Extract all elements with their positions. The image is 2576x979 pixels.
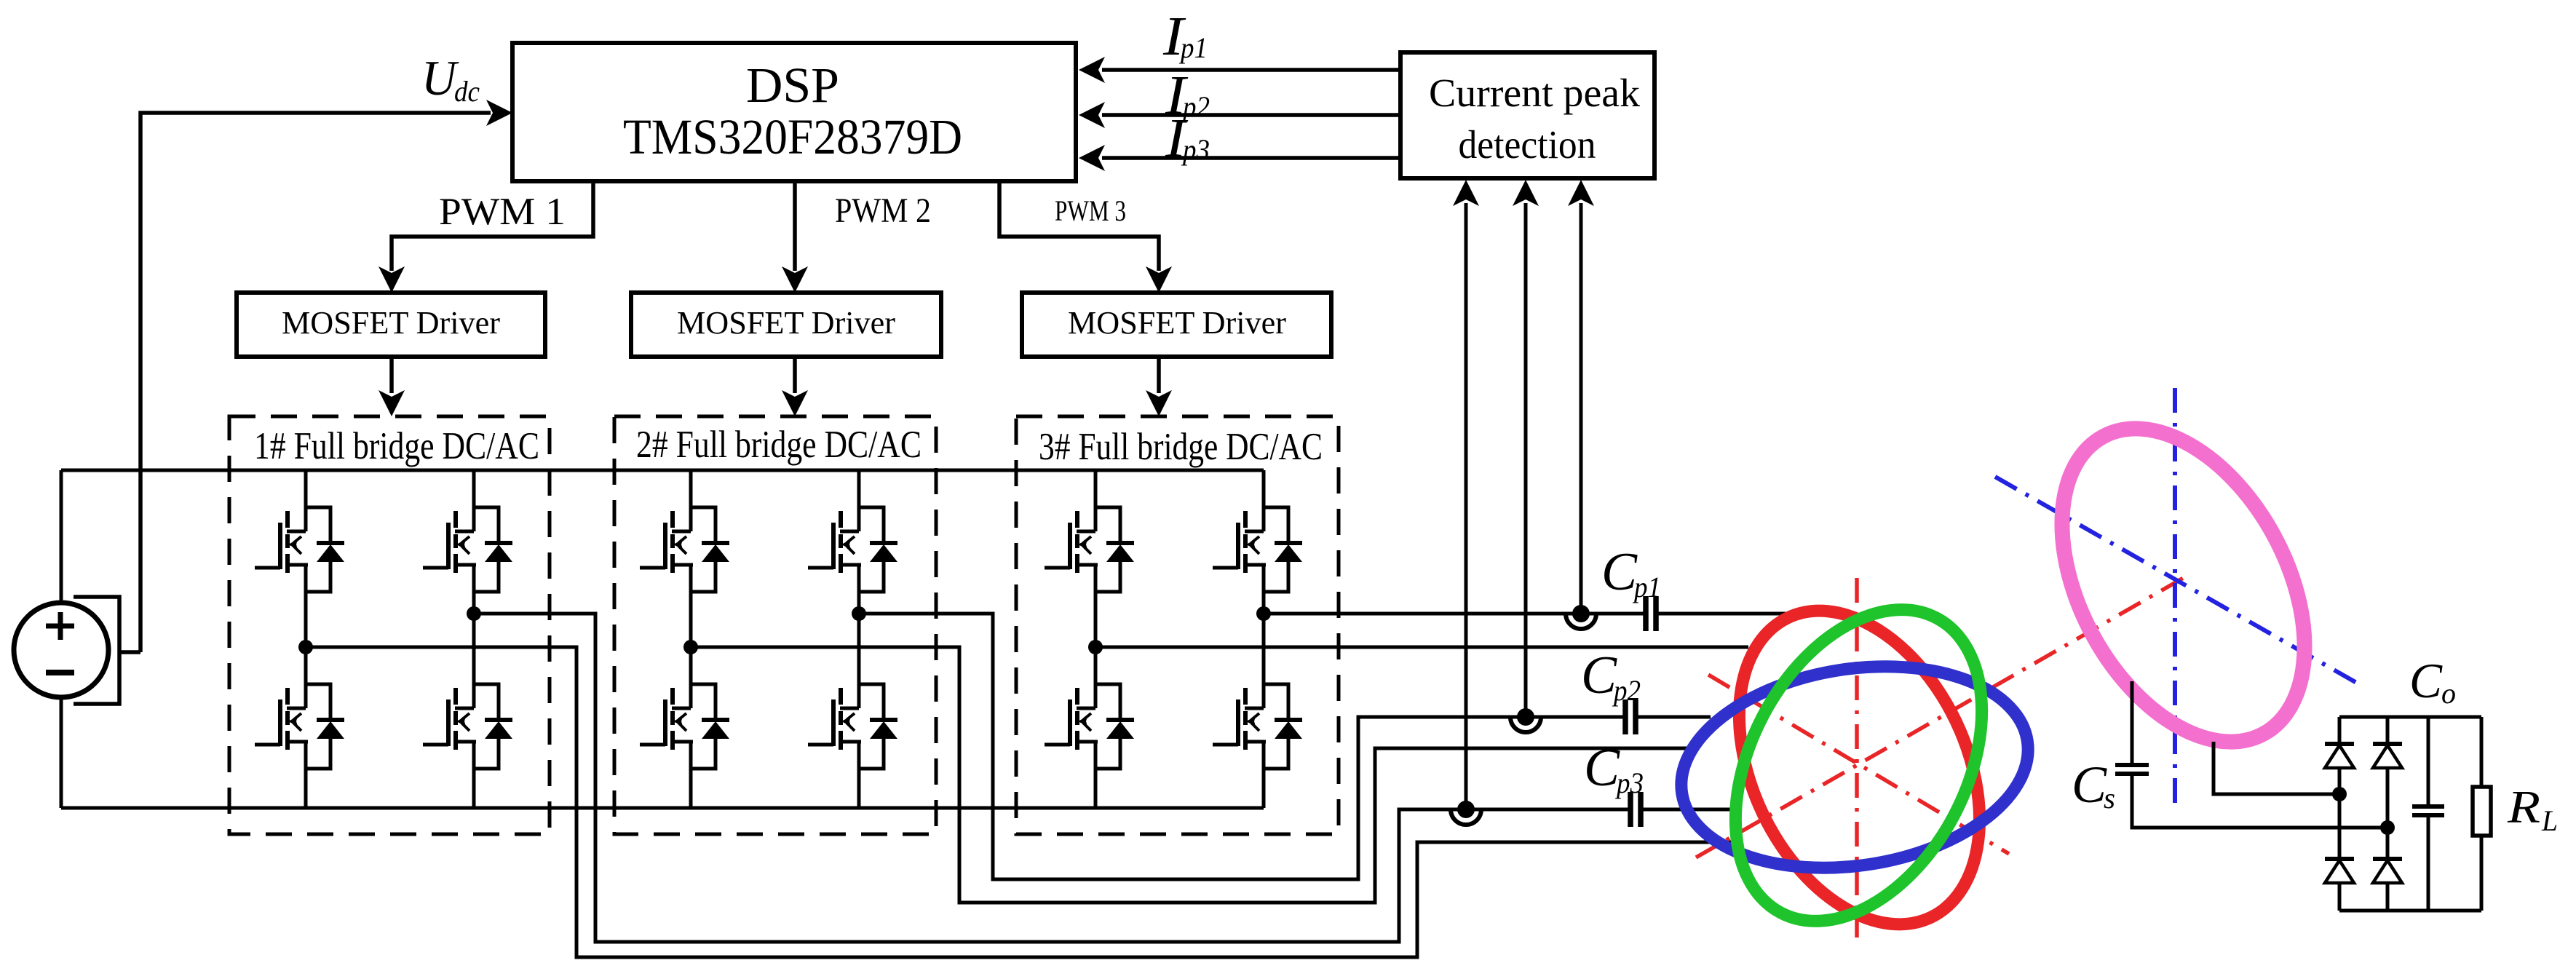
- wire sensor2 to detection box: [1513, 180, 1539, 717]
- receiver coil Ls (pink): [2012, 387, 2354, 782]
- svg-text:C: C: [2072, 756, 2107, 814]
- node bridge1 left midpoint: [298, 640, 313, 654]
- capacitor Cp1: [1646, 596, 1656, 631]
- capacitor Cp3: [1630, 792, 1641, 827]
- bridge1 right leg: [472, 470, 476, 808]
- current sensor on Ip2 line: [1510, 708, 1541, 732]
- label RL: [2507, 781, 2558, 837]
- transistor Q3 with body diode (bridge1 bottom-left): [255, 684, 344, 769]
- svg-text:1# Full bridge DC/AC: 1# Full bridge DC/AC: [254, 425, 539, 467]
- wire Udc sense from source bracket to DSP input: [119, 113, 491, 652]
- node bridge1 right midpoint: [467, 606, 481, 621]
- current sensor on Ip3 line: [1451, 801, 1481, 825]
- label Co: [2409, 653, 2456, 710]
- capacitor Co: [2412, 717, 2444, 911]
- Current peak detection box U2: [1400, 52, 1654, 178]
- svg-text:C: C: [1601, 542, 1638, 602]
- svg-text:3# Full bridge DC/AC: 3# Full bridge DC/AC: [1039, 426, 1323, 468]
- wire DC bus top rail: [61, 469, 1264, 472]
- svg-text:p1: p1: [1632, 571, 1661, 603]
- bridge3 left leg: [1094, 470, 1098, 808]
- label Ip3: [1165, 108, 1210, 169]
- bridge2 right leg: [857, 470, 861, 808]
- label Ip2: [1165, 65, 1210, 126]
- transistor Q6 with body diode (bridge2 top-right): [808, 507, 897, 592]
- svg-text:MOSFET Driver: MOSFET Driver: [677, 305, 895, 341]
- diode D2: [2373, 744, 2402, 768]
- dashed box 2# full bridge DC/AC: [614, 416, 936, 834]
- wire left rail to source: [60, 470, 63, 808]
- label Cp3: [1584, 738, 1644, 799]
- transistor Q12 with body diode (bridge3 bottom-right): [1213, 684, 1302, 769]
- label Cp1: [1601, 542, 1661, 603]
- rectifier top bus: [2339, 716, 2481, 719]
- DSP controller box U1: [512, 43, 1076, 181]
- transistor Q5 with body diode (bridge2 top-left): [640, 507, 729, 592]
- svg-text:dc: dc: [454, 75, 480, 108]
- wire bridge2 right node to Cp2 and coil L3: [859, 614, 1711, 879]
- DC voltage source V1: [14, 603, 108, 697]
- node bridge3 right midpoint: [1256, 606, 1271, 621]
- wire driver3 to bridge3: [1146, 357, 1172, 416]
- node bridge3 left midpoint: [1088, 640, 1103, 654]
- MOSFET Driver box 2: [631, 293, 941, 357]
- svg-text:Current peak: Current peak: [1429, 71, 1640, 115]
- svg-text:DSP: DSP: [746, 58, 839, 113]
- rectifier bottom bus: [2339, 909, 2481, 913]
- wire PWM 1 from DSP to MOSFET driver 1: [379, 181, 593, 293]
- svg-text:detection: detection: [1459, 122, 1596, 167]
- node rectifier upper input: [2332, 787, 2347, 801]
- rectifier left rail: [2338, 717, 2342, 911]
- wire DC bus bottom rail: [61, 806, 1264, 810]
- wire driver1 to bridge1: [379, 357, 405, 416]
- node bridge2 left midpoint: [683, 640, 698, 654]
- transmitter coil L2 (green): [1686, 568, 2032, 963]
- svg-text:2# Full bridge DC/AC: 2# Full bridge DC/AC: [636, 424, 922, 466]
- transistor Q9 with body diode (bridge3 top-left): [1045, 507, 1134, 592]
- axis dash-dot diagonal back-slash of transmitter coil set: [1708, 675, 2009, 854]
- label Ip1: [1162, 6, 1208, 67]
- wire bridge3 left node return to coil L1: [1095, 646, 1748, 649]
- wire bridge3 right node to Cp1 and coil L1: [1264, 612, 1788, 616]
- label Cs: [2072, 756, 2115, 814]
- svg-text:C: C: [1581, 646, 1618, 705]
- label Cp2: [1581, 646, 1641, 707]
- transistor Q2 with body diode (bridge1 top-right): [423, 507, 512, 592]
- svg-text:R: R: [2507, 781, 2540, 833]
- transistor Q4 with body diode (bridge1 bottom-right): [423, 684, 512, 769]
- svg-text:p3: p3: [1614, 766, 1644, 799]
- transistor Q8 with body diode (bridge2 bottom-right): [808, 684, 897, 769]
- MOSFET Driver box 1: [237, 293, 545, 357]
- wire Ip2 from detection box to DSP: [1079, 102, 1400, 128]
- wire PWM 3 from DSP to MOSFET driver 3: [999, 181, 1172, 293]
- svg-text:s: s: [2104, 782, 2115, 814]
- svg-text:p3: p3: [1181, 133, 1210, 166]
- wire Ip3 from detection box to DSP: [1079, 145, 1400, 171]
- transistor Q7 with body diode (bridge2 bottom-left): [640, 684, 729, 769]
- transmitter coil L1 (red): [1692, 571, 2028, 963]
- svg-text:L: L: [2541, 804, 2558, 837]
- svg-text:p1: p1: [1178, 31, 1208, 64]
- svg-text:MOSFET Driver: MOSFET Driver: [1068, 305, 1286, 341]
- svg-text:TMS320F28379D: TMS320F28379D: [623, 109, 962, 165]
- wire PWM 2 from DSP to MOSFET driver 2: [782, 181, 808, 293]
- node bridge2 right midpoint: [852, 606, 866, 621]
- resistor RL: [2473, 717, 2491, 911]
- diode D4: [2373, 859, 2402, 883]
- svg-text:o: o: [2441, 677, 2456, 710]
- wire sensor3 to detection box: [1453, 180, 1479, 809]
- bridge1 left leg: [304, 470, 308, 808]
- bridge3 right leg: [1262, 470, 1266, 808]
- axis dash-dot vertical of transmitter coil set: [1855, 578, 1859, 938]
- wire bridge2 left node return to coil L3: [691, 647, 1692, 903]
- wire receiver coil to Cs: [2131, 681, 2134, 763]
- axis dash-dot diagonal to receiver coil: [1696, 574, 2191, 857]
- diode D1: [2325, 744, 2354, 768]
- transmitter coil L3 (blue): [1668, 644, 2042, 891]
- wire bridge1 right node to Cp3 and coil L2: [474, 614, 1736, 942]
- svg-text:MOSFET Driver: MOSFET Driver: [282, 305, 500, 341]
- capacitor Cs: [2115, 765, 2149, 774]
- transistor Q11 with body diode (bridge3 bottom-left): [1045, 684, 1134, 769]
- transistor Q1 with body diode (bridge1 top-left): [255, 507, 344, 592]
- label Udc: [421, 50, 480, 108]
- current sensor on Ip1 line: [1566, 605, 1596, 629]
- dashed box 3# full bridge DC/AC: [1016, 416, 1339, 834]
- wire bridge1 left node return to coil L2: [306, 647, 1737, 957]
- svg-text:PWM 1: PWM 1: [439, 191, 566, 233]
- MOSFET Driver box 3: [1022, 293, 1331, 357]
- node rectifier lower input: [2380, 820, 2395, 835]
- transistor Q10 with body diode (bridge3 top-right): [1213, 507, 1302, 592]
- svg-text:PWM 2: PWM 2: [835, 191, 931, 230]
- diode D3: [2325, 859, 2354, 883]
- dashed box 1# full bridge DC/AC: [229, 416, 550, 834]
- svg-text:C: C: [1584, 738, 1621, 798]
- rectifier right rail: [2386, 717, 2390, 911]
- bridge2 left leg: [689, 470, 693, 808]
- wire Cs to rectifier lower input: [2132, 776, 2387, 828]
- wire receiver coil to rectifier upper input: [2214, 742, 2339, 794]
- axis dash-dot vertical of receiver coil: [2173, 388, 2177, 809]
- Udc sense bracket across source: [74, 597, 119, 704]
- arrowhead Udc into DSP: [486, 100, 512, 126]
- wire Ip1 from detection box to DSP: [1079, 57, 1400, 83]
- svg-text:PWM 3: PWM 3: [1055, 194, 1126, 227]
- axis dash-dot diagonal of receiver coil: [1995, 477, 2364, 687]
- capacitor Cp2: [1625, 699, 1636, 734]
- svg-text:p2: p2: [1612, 674, 1641, 707]
- svg-text:C: C: [2409, 653, 2443, 708]
- wire sensor1 to detection box: [1568, 180, 1594, 614]
- wire driver2 to bridge2: [782, 357, 808, 416]
